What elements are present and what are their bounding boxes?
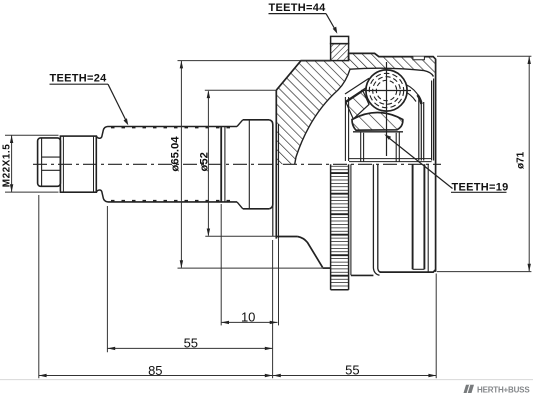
svg-text:ø65.04: ø65.04 [170, 136, 182, 172]
dimension 85 [39, 195, 273, 378]
svg-text:85: 85 [148, 363, 162, 378]
logo HERTH+BUSS [464, 385, 531, 395]
cage right verticals [418, 98, 420, 161]
thread relief and rise to spline bottom [96, 190, 107, 202]
dimension 55 right [273, 274, 436, 379]
bell bottom silhouette [351, 274, 374, 276]
svg-text:55: 55 [345, 362, 359, 377]
thread relief and rise to spline top [96, 127, 107, 139]
cage left band edge A [345, 78, 369, 94]
housing outer profile strokes [276, 53, 435, 272]
flange bottom edge [323, 267, 331, 269]
ABS sensor ring block (section, top) TEETH-44 [331, 36, 349, 60]
svg-text:TEETH=24: TEETH=24 [49, 73, 107, 85]
bottom separator rule [0, 379, 533, 381]
inner race hub [349, 132, 432, 162]
dimension ø71 [437, 56, 531, 271]
cavity left rim verticals [344, 97, 346, 161]
cavity dome boundary [295, 69, 350, 164]
svg-text:10: 10 [241, 310, 255, 325]
svg-text:ø52: ø52 [199, 152, 211, 171]
ring teeth stripes [331, 166, 349, 286]
dimension 10 [221, 204, 278, 378]
shaft shoulder [243, 120, 273, 209]
ring seat edge [350, 164, 352, 275]
mouth inner verticals [431, 81, 433, 161]
snap ring groove on spline [220, 127, 222, 202]
inner race lens (hatched) [352, 113, 403, 131]
svg-text:TEETH=19: TEETH=19 [451, 181, 508, 193]
spline teeth tick band bottom [111, 200, 233, 202]
spline end chamfer top [237, 120, 243, 127]
boot clamp groove notch (top) [413, 57, 425, 60]
svg-text:55: 55 [184, 336, 198, 351]
spline teeth tick band top [111, 126, 233, 128]
dimension ø52 [205, 90, 276, 236]
bell step edges [373, 164, 379, 275]
spigot bottom edge [276, 236, 297, 238]
bottom half: shoulder silhouette [272, 204, 274, 236]
centerline axis [33, 163, 441, 165]
housing body section hatched (top half) [276, 53, 435, 164]
shaft thread end cap [38, 138, 61, 186]
cage section wedge left (hatched) [346, 91, 369, 119]
bell bottom edge [380, 270, 436, 272]
dimension ø65.04 [178, 61, 331, 269]
boot groove (bottom view) [413, 164, 429, 272]
sensor ring band (bottom view) [331, 164, 349, 289]
cone flare to ring [298, 237, 323, 268]
cavity race track arc [350, 68, 434, 76]
svg-text:TEETH=44: TEETH=44 [268, 2, 326, 14]
cage left band edge B [346, 84, 372, 102]
spline end chamfer bottom [237, 202, 243, 209]
svg-text:HERTH+BUSS: HERTH+BUSS [477, 385, 530, 394]
ball [361, 62, 411, 156]
shaft threaded section M22X1.5 [60, 136, 96, 192]
splined shaft TEETH-24 outline [108, 127, 238, 202]
cage right band arcs [406, 85, 420, 98]
housing back face [275, 90, 277, 238]
svg-text:ø71: ø71 [516, 151, 527, 169]
svg-text:M22X1.5: M22X1.5 [1, 144, 12, 188]
dimension 55 left [107, 206, 272, 352]
housing back face inner edge [278, 124, 280, 239]
dimension M22X1.5 [5, 135, 59, 192]
